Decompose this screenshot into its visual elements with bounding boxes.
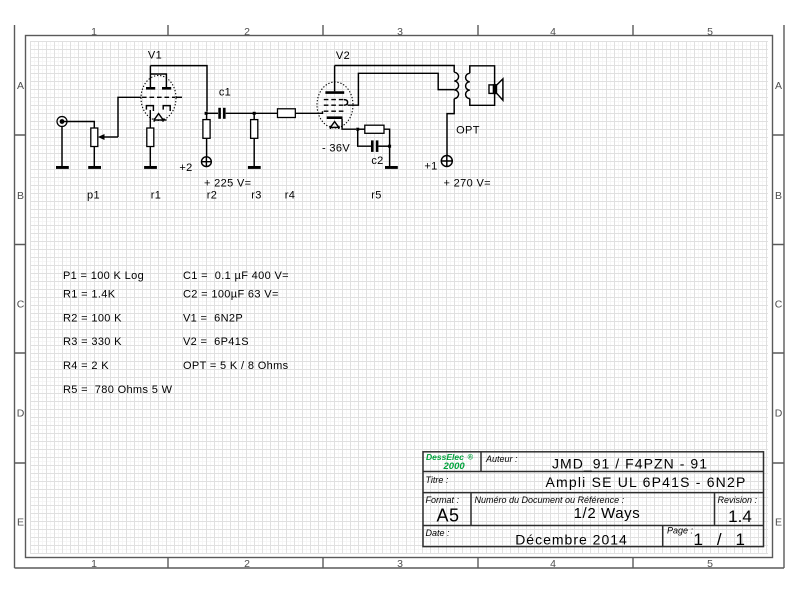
right ruler ticks — [773, 135, 785, 463]
logo DessElec 2000 — [426, 452, 474, 472]
svg-text:r2: r2 — [207, 190, 217, 202]
V2 cathode — [327, 116, 343, 119]
svg-text:+ 225 V=: + 225 V= — [204, 178, 251, 190]
svg-text:Titre :: Titre : — [426, 475, 449, 485]
svg-text:3: 3 — [397, 558, 403, 570]
bottom ruler numbers — [91, 558, 713, 570]
potentiometer P1 — [91, 128, 118, 147]
svg-text:1: 1 — [91, 558, 97, 570]
svg-text:R1 = 1.4K: R1 = 1.4K — [63, 288, 116, 300]
svg-text:r1: r1 — [151, 190, 161, 202]
wire r4 to V2 grid — [295, 111, 322, 113]
ground (p1) — [88, 166, 101, 169]
wire OPT primary bottom to supply — [447, 99, 454, 156]
svg-text:1/2 Ways: 1/2 Ways — [574, 505, 641, 522]
svg-text:5: 5 — [707, 26, 713, 38]
svg-text:Format :: Format : — [426, 495, 460, 505]
wire node C to r5 — [358, 128, 365, 130]
svg-text:R5 = 780 Ohms 5 W: R5 = 780 Ohms 5 W — [63, 384, 173, 396]
wire node C to c2 — [358, 129, 372, 146]
svg-text:+ 270 V=: + 270 V= — [444, 178, 491, 190]
svg-text:+2: +2 — [179, 162, 192, 174]
V1 grid (dashed) — [142, 96, 175, 98]
resistor R4 — [278, 109, 296, 118]
svg-text:A: A — [775, 80, 782, 92]
svg-text:p1: p1 — [87, 190, 100, 202]
wire node D to ground — [389, 146, 391, 166]
wire node A to r2 — [206, 113, 208, 119]
svg-text:r3: r3 — [251, 190, 261, 202]
svg-text:C: C — [17, 299, 25, 311]
node C junction — [356, 128, 359, 131]
svg-text:5: 5 — [707, 558, 713, 570]
speaker LS1 — [489, 79, 503, 100]
left ruler ticks — [15, 135, 26, 463]
svg-text:R4 = 2 K: R4 = 2 K — [63, 360, 109, 372]
V1 cathode left — [146, 106, 153, 111]
svg-text:Page :: Page : — [667, 526, 694, 536]
node B junction — [253, 112, 256, 115]
wire node A to c1 — [207, 112, 218, 114]
V1 grid stub right — [176, 96, 183, 98]
svg-text:c1: c1 — [219, 87, 231, 99]
wire r1 to ground — [149, 147, 151, 167]
svg-text:R2 = 100 K: R2 = 100 K — [63, 313, 122, 325]
svg-text:1.4: 1.4 — [728, 507, 752, 526]
svg-text:4: 4 — [550, 26, 556, 38]
OPT primary winding — [454, 72, 458, 98]
V1 cathode right — [163, 106, 170, 111]
wire V1 cathode to r1 — [149, 110, 151, 128]
svg-text:r4: r4 — [285, 190, 295, 202]
svg-text:Auteur :: Auteur : — [485, 454, 518, 464]
title block row lines — [423, 472, 764, 526]
svg-text:R3 = 330 K: R3 = 330 K — [63, 336, 122, 348]
svg-text:V2: V2 — [336, 50, 350, 62]
supply terminal +1 — [441, 156, 452, 167]
svg-text:B: B — [17, 190, 24, 202]
left ruler letters — [17, 80, 25, 529]
wire p1 to ground — [93, 147, 95, 167]
svg-text:- 36V: - 36V — [322, 143, 350, 155]
left ruler line — [14, 25, 16, 568]
svg-text:C: C — [775, 299, 783, 311]
resistor R5 — [365, 125, 384, 133]
ground (jack) — [56, 166, 69, 169]
V1 plate left — [146, 66, 155, 89]
ground (r3) — [248, 166, 261, 169]
resistor R3 — [251, 120, 258, 139]
svg-text:4: 4 — [550, 558, 556, 570]
ground (r1) — [144, 166, 157, 169]
wire r2 to supply — [206, 138, 208, 156]
capacitor C2 — [372, 140, 377, 152]
svg-text:1 / 1: 1 / 1 — [693, 530, 746, 549]
V2 screen grid (dashed rows) — [324, 100, 348, 106]
wire p1 wiper to V1 grid — [118, 97, 142, 137]
right ruler line — [783, 25, 785, 568]
V2 control grid (dashed) — [324, 110, 346, 112]
svg-text:E: E — [17, 517, 24, 529]
svg-text:2: 2 — [244, 26, 250, 38]
wire V2 plate to OPT — [335, 66, 455, 73]
wire screen to UL tap — [348, 73, 455, 105]
title block column lines — [471, 452, 715, 547]
resistor R1 — [147, 128, 154, 147]
wire r5 to node D — [384, 129, 390, 146]
svg-text:JMD_91 / F4PZN - 91: JMD_91 / F4PZN - 91 — [552, 456, 708, 472]
svg-text:Décembre 2014: Décembre 2014 — [515, 532, 628, 548]
svg-text:P1 = 100 K Log: P1 = 100 K Log — [63, 270, 144, 282]
wire c1 to r4 — [226, 112, 278, 114]
node A junction — [205, 112, 208, 115]
svg-text:V1: V1 — [148, 50, 162, 62]
svg-text:Date :: Date : — [426, 528, 451, 538]
bottom ruler line — [15, 567, 785, 569]
capacitor C1 — [220, 108, 225, 119]
svg-text:V1 = 6N2P: V1 = 6N2P — [183, 313, 243, 325]
OPT secondary winding — [466, 73, 470, 98]
svg-text:A: A — [17, 80, 24, 92]
wire node B to r3 — [253, 113, 255, 119]
tube V2 envelope — [317, 82, 353, 128]
svg-text:D: D — [775, 408, 783, 420]
tube V1 envelope — [141, 76, 176, 121]
svg-text:2: 2 — [244, 558, 250, 570]
ground (c2/r5) — [385, 166, 398, 169]
resistor R2 — [203, 120, 210, 139]
right ruler letters — [775, 80, 783, 529]
wire c2 to node D — [378, 145, 389, 147]
svg-text:Revision :: Revision : — [718, 495, 758, 505]
wire V1 plate to node A — [150, 66, 207, 112]
svg-text:2000: 2000 — [443, 461, 466, 472]
V1 plate right — [150, 74, 171, 88]
svg-text:Ampli SE UL 6P41S - 6N2P: Ampli SE UL 6P41S - 6N2P — [545, 474, 746, 490]
svg-text:B: B — [775, 190, 782, 202]
node D junction — [388, 145, 391, 148]
wire jack to ground — [61, 126, 63, 166]
wire r3 to ground — [253, 138, 255, 166]
title block outline — [423, 452, 764, 547]
bottom ruler ticks — [168, 558, 633, 569]
wire jack to p1 top — [64, 122, 95, 129]
svg-text:OPT: OPT — [456, 125, 480, 137]
svg-text:+1: +1 — [424, 161, 437, 173]
svg-text:D: D — [17, 408, 25, 420]
top ruler numbers — [91, 26, 713, 38]
svg-text:V2 = 6P41S: V2 = 6P41S — [183, 336, 249, 348]
svg-text:1: 1 — [91, 26, 97, 38]
wire V2 cathode to node C — [342, 119, 356, 129]
svg-text:E: E — [775, 517, 782, 529]
svg-text:c2: c2 — [371, 155, 383, 167]
V2 plate — [325, 66, 344, 93]
grid background — [30, 41, 768, 554]
supply terminal +2 — [202, 157, 212, 167]
input jack J1 — [57, 117, 67, 127]
svg-text:A5: A5 — [436, 506, 459, 526]
svg-text:®: ® — [468, 453, 474, 462]
svg-text:r5: r5 — [371, 190, 381, 202]
svg-text:Numéro du Document ou Référenc: Numéro du Document ou Référence : — [475, 495, 625, 505]
secondary loop to speaker — [470, 66, 495, 106]
svg-text:C1 = 0.1 µF 400 V=: C1 = 0.1 µF 400 V= — [183, 270, 289, 282]
svg-text:3: 3 — [397, 26, 403, 38]
svg-text:OPT = 5 K / 8 Ohms: OPT = 5 K / 8 Ohms — [183, 360, 289, 372]
V1 heater — [154, 114, 167, 122]
top ruler ticks — [168, 25, 633, 36]
svg-text:C2 = 100µF 63 V=: C2 = 100µF 63 V= — [183, 288, 279, 300]
V2 heater — [330, 122, 340, 129]
